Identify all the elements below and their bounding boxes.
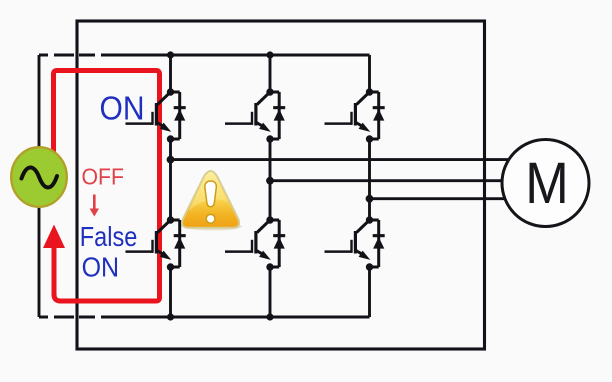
junction bottom rail leg2 (266, 313, 273, 320)
AC source sine symbol (22, 167, 58, 187)
label down-arrow (93, 195, 96, 211)
transistor Q6 (leg3 lower IGBT with diode) (325, 216, 385, 270)
wire: DC- dash-dot segment from source bottom (39, 207, 101, 317)
transistor Q2 (leg1 lower IGBT with diode) (126, 216, 186, 270)
junction top rail leg1 (167, 51, 174, 58)
svg-text:False: False (80, 220, 138, 252)
transistor Q4 (leg2 lower IGBT with diode) (225, 216, 285, 270)
wire: DC+ top rail (101, 54, 370, 57)
junction bottom rail leg1 (167, 313, 174, 320)
red highlighted fault-current path (54, 71, 160, 302)
warning icon triangle (182, 171, 239, 228)
wire: leg 2 vertical segments (269, 55, 272, 317)
junction phase U node (167, 156, 175, 164)
junction top rail leg2 (266, 51, 273, 58)
wire: phase U output line (171, 158, 511, 161)
transistor Q5 (leg3 upper IGBT with diode) (325, 88, 385, 142)
wire: leg 1 vertical segments (169, 55, 172, 317)
warning icon exclamation dot (206, 214, 215, 223)
svg-text:M: M (525, 151, 569, 216)
red path arrowhead (current direction up) (43, 225, 65, 249)
wire: leg 3 vertical segments (368, 55, 371, 317)
svg-text:ON: ON (82, 251, 120, 283)
wire: phase W output line (370, 197, 511, 200)
junction phase W node (366, 195, 374, 203)
svg-text:ON: ON (100, 89, 145, 126)
transistor Q1 (leg1 upper IGBT with diode) (126, 88, 186, 142)
motor M1 circle (502, 140, 589, 227)
warning icon shadow (184, 223, 242, 231)
junction phase V node (266, 177, 274, 185)
wire: DC- bottom rail (101, 316, 370, 319)
warning icon exclamation mark (205, 181, 216, 207)
warning icon gloss (189, 174, 228, 211)
AC source V1 (11, 147, 67, 207)
transistor Q3 (leg2 upper IGBT with diode) (225, 88, 285, 142)
wire: phase V output line (270, 179, 510, 182)
inverter enclosure box (77, 21, 485, 349)
wire: DC+ dash-dot segment from source top (39, 55, 101, 147)
svg-text:OFF: OFF (82, 164, 125, 190)
